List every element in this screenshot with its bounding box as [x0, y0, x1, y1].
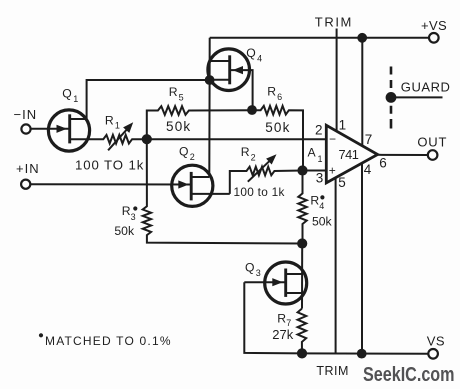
transistor Q3 source stub — [286, 292, 302, 294]
wire Q1 drain riser — [87, 80, 210, 119]
svg-text:1: 1 — [115, 121, 120, 131]
op-amp U1 triangle — [326, 125, 377, 183]
transistor Q2 gate line — [30, 183, 191, 185]
node +VS rail junction — [357, 33, 367, 43]
node R7/rail junction — [297, 348, 307, 358]
svg-text:R: R — [267, 84, 276, 98]
svg-text:R: R — [310, 193, 319, 207]
svg-text:A: A — [308, 145, 317, 159]
svg-text:50k: 50k — [312, 214, 333, 228]
svg-text:+IN: +IN — [16, 161, 40, 176]
node A1 summing junction — [297, 165, 307, 175]
transistor Q2 gate arrow — [178, 180, 189, 188]
wire pin3 lead — [303, 170, 327, 172]
svg-text:−: − — [329, 132, 336, 146]
note matched tolerance — [39, 333, 43, 337]
svg-text:7: 7 — [365, 132, 373, 147]
svg-text:27k: 27k — [272, 327, 293, 342]
wire pin7 riser — [361, 38, 363, 146]
node pin4 on VS rail — [357, 349, 367, 359]
svg-text:5: 5 — [179, 93, 184, 103]
transistor Q1 gate line — [31, 128, 70, 130]
svg-text:50k: 50k — [114, 224, 135, 238]
svg-text:OUT: OUT — [417, 135, 447, 150]
svg-text:Q: Q — [245, 260, 254, 274]
wire VS bottom rail — [302, 352, 428, 354]
wire pin4 drop — [361, 163, 363, 354]
svg-text:100 TO 1k: 100 TO 1k — [75, 158, 144, 173]
svg-text:4: 4 — [364, 162, 372, 177]
svg-text:4: 4 — [319, 201, 324, 211]
guard dashed line — [390, 67, 393, 129]
wire guard lead — [391, 96, 443, 98]
node R4/R3/Q3 junction — [297, 238, 307, 248]
resistor R3 and lower wire — [143, 139, 303, 243]
transistor Q4 source stub — [210, 79, 230, 81]
svg-text:50k: 50k — [166, 119, 191, 134]
resistor R1 wiper arrow line — [108, 128, 128, 151]
terminal -IN circle — [21, 124, 30, 133]
node guard dot — [386, 92, 397, 103]
wire TRIM top / pin1 riser — [336, 29, 338, 132]
terminal OUT circle — [428, 150, 438, 160]
transistor Q2 channel bar — [190, 172, 193, 201]
transistor Q1 gate arrow — [57, 125, 68, 133]
svg-text:R: R — [277, 312, 286, 326]
svg-text:+: + — [329, 163, 336, 177]
transistor Q1 channel bar — [68, 114, 71, 143]
svg-text:2: 2 — [190, 152, 195, 162]
svg-text:3: 3 — [256, 268, 261, 278]
svg-text:100 to 1k: 100 to 1k — [234, 185, 285, 199]
svg-text:3: 3 — [131, 212, 136, 222]
svg-text:6: 6 — [277, 92, 282, 102]
svg-text:1: 1 — [73, 94, 78, 104]
wire Q4/Q2 drain trunk — [208, 38, 210, 177]
svg-text:3: 3 — [316, 171, 324, 186]
wire Q2 source riser and resistor R2 — [230, 167, 303, 194]
transistor Q4 gate arrow — [233, 66, 244, 74]
svg-text:R: R — [241, 145, 250, 159]
transistor Q2 drain stub — [191, 176, 209, 178]
svg-text:GUARD: GUARD — [401, 80, 451, 95]
svg-text:R: R — [105, 114, 114, 128]
resistor R7 — [298, 309, 307, 354]
svg-text:TRIM: TRIM — [315, 14, 353, 29]
svg-text:MATCHED TO 0.1%: MATCHED TO 0.1% — [45, 334, 172, 348]
svg-text:SeekIC.com: SeekIC.com — [363, 364, 455, 386]
transistor Q4 channel bar — [228, 55, 231, 84]
svg-text:2: 2 — [315, 123, 323, 138]
wire Q3 drain trunk — [301, 244, 303, 309]
transistor Q2 source stub — [191, 193, 230, 195]
transistor Q1 body — [48, 110, 89, 151]
transistor Q3 gate arrow — [272, 278, 283, 286]
svg-text:Q: Q — [62, 86, 71, 100]
wire +VS top rail — [210, 37, 430, 39]
transistor Q4 drain stub — [210, 60, 230, 62]
svg-text:1: 1 — [318, 154, 323, 164]
resistor R2 wiper arrow line — [248, 159, 272, 182]
resistor R1 wiper arrowhead — [123, 122, 133, 133]
svg-text:4: 4 — [257, 53, 262, 63]
node Q4 source/gate junction — [205, 75, 215, 85]
transistor Q3 drain stub — [286, 273, 302, 275]
resistor R4 — [298, 171, 306, 244]
svg-text:R: R — [169, 85, 178, 99]
transistor Q1 drain stub — [70, 118, 87, 120]
svg-text:Q: Q — [246, 46, 255, 60]
svg-text:5: 5 — [338, 175, 346, 190]
wire Q1 source / resistor R1 / pin2 line — [70, 135, 327, 144]
terminal VS circle — [428, 349, 438, 359]
resistor R2 wiper arrowhead — [266, 154, 276, 164]
wire pin5 drop / TRIM bottom — [335, 178, 337, 354]
svg-text:1: 1 — [339, 118, 347, 133]
svg-text:741: 741 — [339, 147, 359, 162]
transistor Q4 gate line — [230, 70, 253, 110]
wire Q3 gate loop — [244, 282, 302, 353]
svg-text:6: 6 — [379, 156, 387, 171]
svg-text:TRIM: TRIM — [316, 364, 349, 378]
svg-text:VS: VS — [427, 334, 445, 349]
node R1/R5/R3 junction — [142, 134, 152, 144]
svg-text:+VS: +VS — [421, 18, 447, 33]
svg-text:2: 2 — [251, 152, 256, 162]
wire output lead — [378, 154, 428, 156]
transistor Q3 body — [265, 262, 307, 304]
svg-text:−IN: −IN — [14, 107, 38, 122]
transistor Q2 body — [172, 165, 213, 206]
resistor R6 — [252, 106, 303, 171]
svg-text:50k: 50k — [265, 120, 290, 135]
node R5/R6/Q4-gate junction — [247, 105, 257, 115]
transistor Q3 channel bar — [284, 269, 287, 297]
terminal +VS circle — [429, 33, 439, 43]
terminal +IN circle — [21, 180, 30, 189]
transistor Q4 body — [208, 49, 250, 91]
transistor Q3 gate line — [244, 281, 285, 283]
svg-text:R: R — [122, 204, 131, 218]
svg-text:Q: Q — [179, 144, 188, 158]
wire R5 riser and resistor R5 — [147, 106, 252, 139]
